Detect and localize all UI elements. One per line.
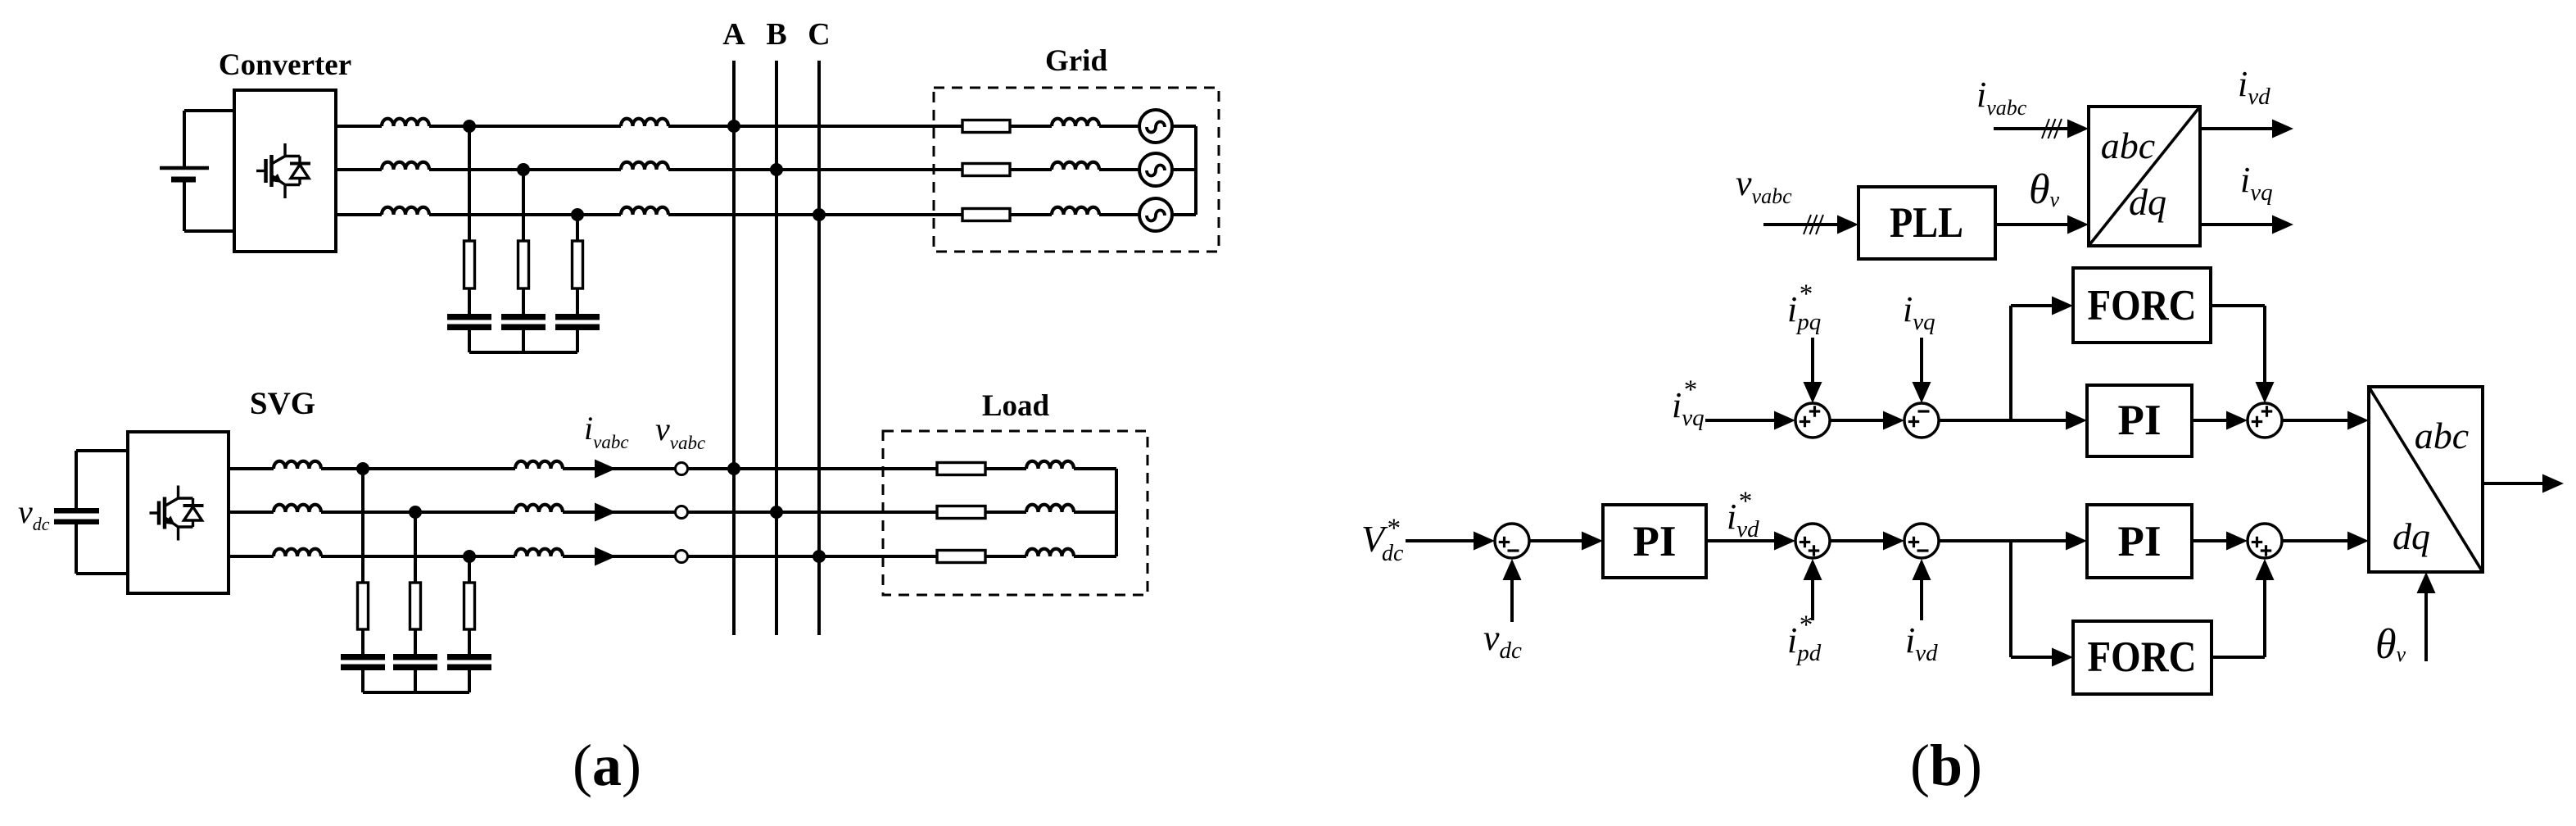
svg-text:PI: PI [1633, 518, 1677, 565]
svg-text:PI: PI [2118, 397, 2162, 444]
svg-text:Converter: Converter [219, 48, 351, 82]
svg-text:dq: dq [2129, 181, 2166, 223]
svg-text:*: * [1798, 279, 1812, 309]
svg-text:Grid: Grid [1045, 44, 1107, 78]
svg-text:Load: Load [982, 389, 1050, 423]
svg-text:*: * [1386, 514, 1400, 543]
svg-text:(b): (b) [1910, 733, 1982, 798]
svg-text:(a): (a) [573, 733, 641, 798]
svg-text:*: * [1737, 487, 1751, 516]
svg-text:C: C [808, 17, 830, 52]
svg-text:*: * [1682, 375, 1696, 405]
svg-text:FORC: FORC [2088, 282, 2197, 329]
svg-text:*: * [1798, 610, 1812, 640]
svg-text:dq: dq [2393, 515, 2430, 557]
svg-text:A: A [722, 17, 745, 52]
svg-text:abc: abc [2101, 125, 2155, 166]
svg-text:B: B [766, 17, 786, 52]
svg-text:abc: abc [2415, 415, 2469, 456]
svg-text:FORC: FORC [2088, 633, 2197, 681]
svg-text:PLL: PLL [1890, 199, 1963, 247]
svg-text:PI: PI [2118, 518, 2162, 565]
svg-text:SVG: SVG [250, 386, 315, 421]
svg-text:dc: dc [1382, 541, 1404, 566]
